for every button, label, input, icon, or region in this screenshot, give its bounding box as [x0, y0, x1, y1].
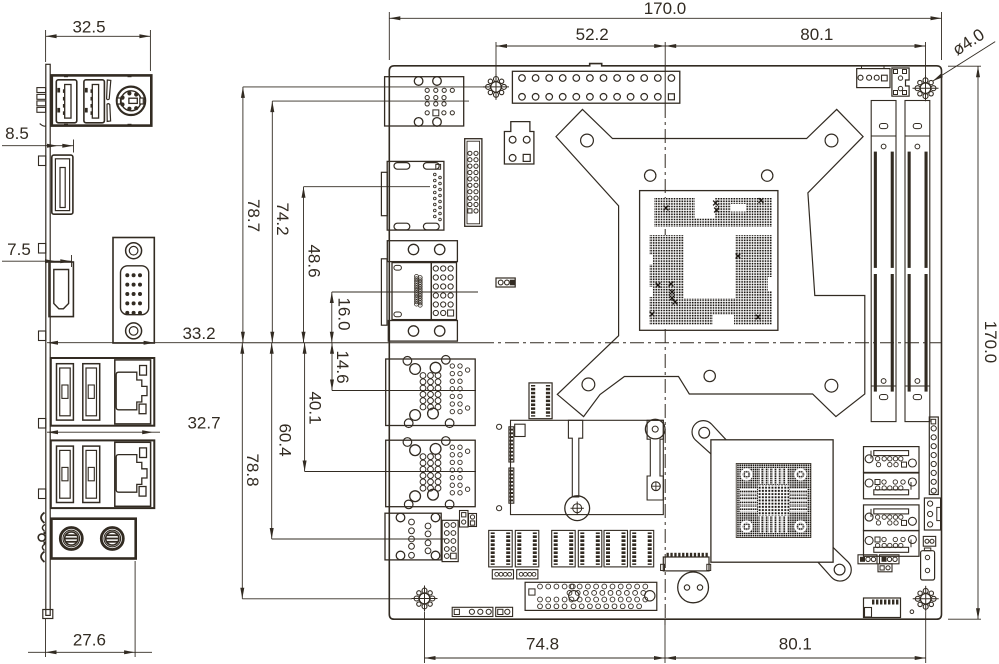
bottom edge header: [452, 607, 493, 616]
VGA pin field: [431, 263, 456, 320]
dim 78.8: [241, 343, 243, 599]
dim 78.7: [242, 87, 244, 343]
svg-text:32.5: 32.5: [72, 17, 105, 36]
ATX12V 4-pin connector: [504, 122, 534, 164]
USB-A port 2: [83, 364, 100, 420]
fan header 2-pin bottom-right: [921, 551, 935, 580]
DIMM slot 1: [871, 101, 896, 422]
DIMM slot 2: [905, 101, 930, 422]
chipset heatsink outline: [711, 440, 833, 562]
svg-text:52.2: 52.2: [576, 25, 609, 44]
dim 32.7: [47, 431, 160, 433]
rear VGA connector (top view): [387, 241, 457, 262]
USB port A (side): [56, 80, 77, 123]
chipset heatsink tab bottom-right: [818, 547, 851, 581]
mounting hole bottom-right: [920, 594, 931, 605]
mini PCIe standoff strut: [568, 420, 582, 497]
HDMI connector (side): [49, 262, 73, 317]
VGA DB15 connector (side): [113, 238, 154, 344]
USB-A port 1: [57, 364, 74, 420]
svg-text:8.5: 8.5: [5, 124, 29, 143]
svg-text:7.5: 7.5: [7, 240, 31, 259]
dim 170.0 right: [948, 65, 981, 67]
rear USB LAN 1 (top view): [386, 359, 476, 426]
mounting hole top-right: [920, 83, 931, 94]
svg-text:14.6: 14.6: [333, 350, 352, 383]
SATA connector 1: [864, 447, 920, 473]
dim 74.2: [271, 101, 273, 343]
clip at USB block bottom: [40, 124, 46, 127]
front USB3 header: [529, 383, 552, 419]
mounting hole top-left: [491, 82, 502, 93]
dim 80.1 top: [925, 42, 927, 77]
rear audio jacks (top view): [385, 513, 441, 560]
PS2 connector (side): [117, 87, 145, 115]
svg-text:40.1: 40.1: [306, 391, 325, 424]
jumper 2-pin right: [923, 536, 935, 546]
front panel connector bottom-right: [864, 598, 901, 618]
svg-text:48.6: 48.6: [304, 244, 323, 277]
bottom header row: [489, 530, 513, 567]
dim 74.8 bottom: [424, 612, 426, 663]
USB LAN combo block 1 (side view): [51, 358, 155, 426]
via near hole: [910, 610, 914, 614]
audio jack block (side view): [51, 519, 135, 559]
mini PCIe card outline: [511, 420, 664, 514]
SATA connector 2: [864, 473, 920, 499]
mini PCIe edge connector: [509, 427, 514, 462]
battery: [678, 572, 709, 603]
SATA jumpers: [858, 555, 877, 564]
keying slots: [107, 80, 111, 100]
dim dia 4.0 leader: [933, 42, 996, 82]
USB header top-right: [892, 68, 909, 96]
rear audio connector (top view): [385, 77, 464, 126]
pin header strip right edge: [929, 417, 938, 495]
4-pin headers below: [492, 570, 513, 579]
board vertical center line: [664, 66, 666, 104]
io bracket plate: [46, 64, 50, 615]
mini PCIe right bracket: [647, 420, 663, 500]
svg-text:170.0: 170.0: [981, 321, 999, 364]
dim 7.5: [2, 260, 72, 262]
socket orientation marks: [664, 206, 669, 211]
ATX 24-pin power connector: [512, 71, 679, 103]
motherboard outline: [389, 64, 941, 620]
CPU socket outline: [640, 191, 778, 331]
USB PS2 combo block (side view): [52, 75, 152, 125]
board horizontal center line: [230, 342, 480, 344]
bracket screw holes: [645, 170, 656, 181]
CPU socket pin grid: [654, 198, 772, 227]
RJ45 LAN port: [115, 442, 151, 506]
CPU cooler bracket outline: [556, 109, 865, 416]
svg-text:80.1: 80.1: [800, 25, 833, 44]
bracket plate tab clips: [39, 156, 46, 166]
svg-text:74.2: 74.2: [273, 202, 292, 235]
dim 48.6: [303, 187, 305, 343]
DisplayPort connector (side): [52, 155, 73, 214]
connector below strip: [924, 498, 940, 530]
chipset heatsink tab top-left: [692, 421, 726, 455]
dim 33.2: [47, 342, 230, 344]
dim 16.0: [331, 292, 333, 343]
dim 52.2 top: [495, 42, 497, 74]
svg-text:74.8: 74.8: [526, 634, 559, 653]
chipset BGA grid: [736, 463, 811, 537]
dim 14.6: [331, 343, 333, 391]
dim 8.5: [2, 145, 74, 147]
SATA connector 3: [864, 505, 920, 531]
USB LAN combo block 2 (side view): [51, 440, 155, 508]
dim 170.0 top: [388, 12, 390, 60]
rear DP HDMI connector (top view): [387, 161, 444, 230]
svg-text:80.1: 80.1: [779, 634, 812, 653]
svg-text:16.0: 16.0: [335, 297, 354, 330]
svg-text:170.0: 170.0: [644, 0, 687, 18]
USB-A port 2: [83, 446, 100, 502]
USB port B (side): [84, 80, 105, 123]
dim 80.1 bottom: [925, 612, 927, 663]
svg-text:27.6: 27.6: [73, 630, 106, 649]
mounting hole bottom-left: [419, 593, 430, 604]
svg-text:32.7: 32.7: [187, 413, 220, 432]
dim 32.5 top: [45, 30, 47, 62]
fan header 4-pin top: [857, 69, 890, 88]
FFC connector above battery: [663, 557, 709, 571]
svg-text:33.2: 33.2: [182, 324, 215, 343]
jumper 3-pin: [496, 278, 515, 287]
heatsink fins beside USB stack: [37, 88, 46, 93]
svg-text:ø4.0: ø4.0: [949, 25, 988, 59]
edge capacitors beside audio block: [41, 513, 45, 524]
PCIe riser pin field: [525, 582, 657, 610]
bracket push-pin holes: [581, 134, 594, 147]
svg-text:78.8: 78.8: [243, 453, 262, 486]
RJ45 LAN port: [115, 360, 151, 424]
rear USB LAN 2 (top view): [386, 440, 476, 507]
SATA connector 4: [864, 531, 920, 557]
USB-A port 1: [57, 446, 74, 502]
svg-text:60.4: 60.4: [276, 423, 295, 456]
front panel header 2x10: [465, 139, 482, 227]
dim 40.1: [304, 343, 306, 472]
dim 60.4: [271, 343, 273, 539]
svg-text:78.7: 78.7: [244, 199, 263, 232]
audio header jumpers: [460, 511, 469, 528]
dim 27.6 bottom: [45, 618, 47, 657]
